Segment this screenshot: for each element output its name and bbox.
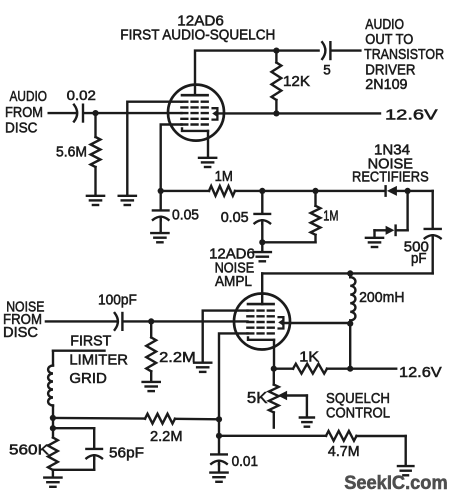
svg-text:SeekIC.com: SeekIC.com xyxy=(344,472,448,494)
svg-text:100pF: 100pF xyxy=(98,292,137,309)
svg-text:DISC: DISC xyxy=(3,324,38,341)
svg-text:5: 5 xyxy=(323,62,331,77)
svg-text:5K: 5K xyxy=(247,390,268,407)
svg-text:CONTROL: CONTROL xyxy=(326,405,390,422)
svg-text:0.01: 0.01 xyxy=(232,454,258,470)
svg-text:0.05: 0.05 xyxy=(221,210,249,226)
svg-text:DISC: DISC xyxy=(5,120,38,137)
svg-text:200mH: 200mH xyxy=(359,289,404,306)
svg-text:1M: 1M xyxy=(323,209,338,225)
svg-text:5.6M: 5.6M xyxy=(56,144,87,160)
svg-text:FIRST AUDIO-SQUELCH: FIRST AUDIO-SQUELCH xyxy=(120,26,275,43)
svg-text:1K: 1K xyxy=(299,349,319,366)
svg-text:2.2M: 2.2M xyxy=(150,429,183,445)
svg-text:RECTIFIERS: RECTIFIERS xyxy=(352,169,429,186)
svg-text:LIMITER: LIMITER xyxy=(69,352,128,369)
svg-text:4.7M: 4.7M xyxy=(328,444,360,460)
svg-text:0.05: 0.05 xyxy=(172,208,199,224)
svg-text:FIRST: FIRST xyxy=(70,332,111,349)
svg-text:FROM: FROM xyxy=(5,104,43,121)
svg-text:1M: 1M xyxy=(215,169,233,185)
svg-text:560K: 560K xyxy=(9,442,49,459)
svg-text:12.6V: 12.6V xyxy=(385,107,438,124)
svg-text:2N109: 2N109 xyxy=(365,76,407,93)
svg-text:56pF: 56pF xyxy=(109,444,144,461)
svg-text:GRID: GRID xyxy=(69,370,107,387)
svg-text:2.2M: 2.2M xyxy=(159,350,196,366)
svg-text:AMPL: AMPL xyxy=(215,273,252,290)
svg-text:AUDIO: AUDIO xyxy=(10,88,48,105)
svg-text:12K: 12K xyxy=(283,73,310,90)
svg-text:pF: pF xyxy=(411,250,427,267)
svg-text:12.6V: 12.6V xyxy=(399,364,442,381)
svg-text:0.02: 0.02 xyxy=(67,87,97,103)
